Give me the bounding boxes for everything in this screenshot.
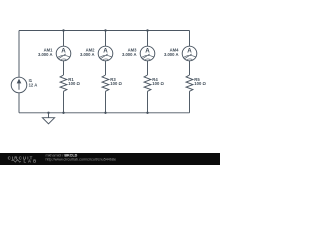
svg-text:100 Ω: 100 Ω (110, 81, 122, 86)
svg-text:3.000 A: 3.000 A (122, 52, 137, 57)
svg-text:3.000 A: 3.000 A (38, 52, 53, 57)
svg-text:3.000 A: 3.000 A (164, 52, 179, 57)
svg-text:A: A (145, 47, 150, 54)
svg-text:100 Ω: 100 Ω (68, 81, 80, 86)
svg-text:http://www.circuitlab.com/circ: http://www.circuitlab.com/circuit/cnu544… (46, 158, 117, 162)
svg-text:12 A: 12 A (29, 82, 38, 87)
svg-text:100 Ω: 100 Ω (152, 81, 164, 86)
svg-text:100 Ω: 100 Ω (194, 81, 206, 86)
svg-text:A: A (61, 47, 66, 54)
svg-text:A: A (187, 47, 192, 54)
svg-text:3.000 A: 3.000 A (80, 52, 95, 57)
svg-text:LAB: LAB (24, 159, 39, 164)
svg-text:A: A (103, 47, 108, 54)
